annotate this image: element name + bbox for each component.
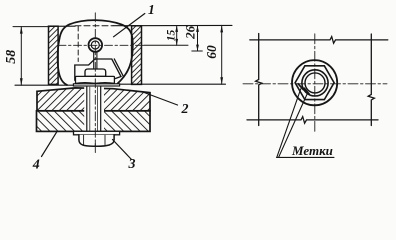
- washer plate under base: [74, 131, 120, 135]
- extension stub for 26 bottom: [192, 50, 203, 52]
- nut cap (chamfered top): [85, 69, 106, 76]
- svg-text:Метки: Метки: [291, 143, 333, 158]
- plate left edge with break: [256, 34, 262, 126]
- wedge item 2 (hatched, slanted top): [37, 88, 150, 111]
- vertical center line: [314, 34, 316, 133]
- svg-text:3: 3: [128, 157, 136, 172]
- callout 3 leader: [113, 140, 132, 160]
- callout 2 leader: [142, 92, 178, 106]
- stud chamfer circle: [305, 73, 325, 93]
- plate right edge with break: [368, 34, 374, 126]
- dimension 60 line: [221, 25, 223, 84]
- hub inner circle: [91, 41, 99, 49]
- vertical center line (bolt axis): [94, 13, 96, 153]
- plate bottom edge with break: [247, 117, 378, 124]
- horizontal center line: [243, 83, 387, 85]
- callout 1 leader: [114, 14, 145, 37]
- top extension line to dimensions (right): [113, 24, 232, 26]
- bolt thread lines: [89, 87, 91, 131]
- nut hexagon: [295, 66, 334, 100]
- bolt head: [79, 135, 114, 146]
- dimension 58 line: [20, 27, 22, 86]
- label shelf line: [277, 156, 335, 158]
- dimension 26 line: [197, 26, 199, 52]
- horizontal center line of hub: [58, 44, 144, 46]
- dimension 15 line: [176, 26, 178, 46]
- bolt hole channel (white): [84, 87, 104, 131]
- bracket inner diagonal: [114, 59, 123, 77]
- svg-text:1: 1: [148, 2, 155, 17]
- housing bottom line right + 60 extension: [119, 83, 226, 85]
- bracket lower-left foot edge: [75, 79, 83, 81]
- bolt head facet lines: [83, 135, 85, 144]
- leader lines from Метки label: [277, 89, 301, 158]
- washer outer circle: [292, 60, 337, 105]
- bolt shank through hole: [86, 86, 88, 131]
- plate top edge with break: [250, 37, 388, 44]
- nut body (spherical washer lobes): [76, 76, 115, 83]
- washer under nut: [73, 84, 119, 86]
- stud circle: [302, 70, 328, 96]
- housing top edge hidden (dashed across roller): [75, 25, 113, 27]
- callout 4 leader: [42, 132, 57, 157]
- base plate item 4 (hatched): [37, 111, 151, 132]
- bolt head center notch: [94, 143, 96, 146]
- housing bottom line left + 58 extension: [15, 84, 79, 86]
- svg-text:60: 60: [204, 45, 219, 59]
- hidden edge dashed line in housing: [77, 26, 79, 62]
- alignment marks on nut and stud: [298, 84, 303, 90]
- right wall of housing (hatched): [132, 26, 142, 85]
- svg-text:15: 15: [166, 29, 178, 41]
- svg-text:2: 2: [181, 102, 189, 117]
- clamp bracket (lever): [75, 59, 121, 80]
- dimension 58 top extension line: [13, 26, 50, 28]
- housing top edge left (solid): [49, 25, 76, 27]
- svg-text:4: 4: [32, 157, 40, 172]
- svg-text:58: 58: [4, 50, 19, 64]
- eccentric roller drum (item 1): [58, 20, 133, 85]
- svg-text:26: 26: [183, 25, 198, 40]
- hub outer circle: [89, 38, 103, 52]
- stud between hub and nut: [93, 52, 95, 69]
- left wall of housing (hatched): [49, 26, 59, 84]
- extension line hub center (15 bottom): [144, 44, 188, 46]
- dimension 58 arrows: [20, 27, 23, 34]
